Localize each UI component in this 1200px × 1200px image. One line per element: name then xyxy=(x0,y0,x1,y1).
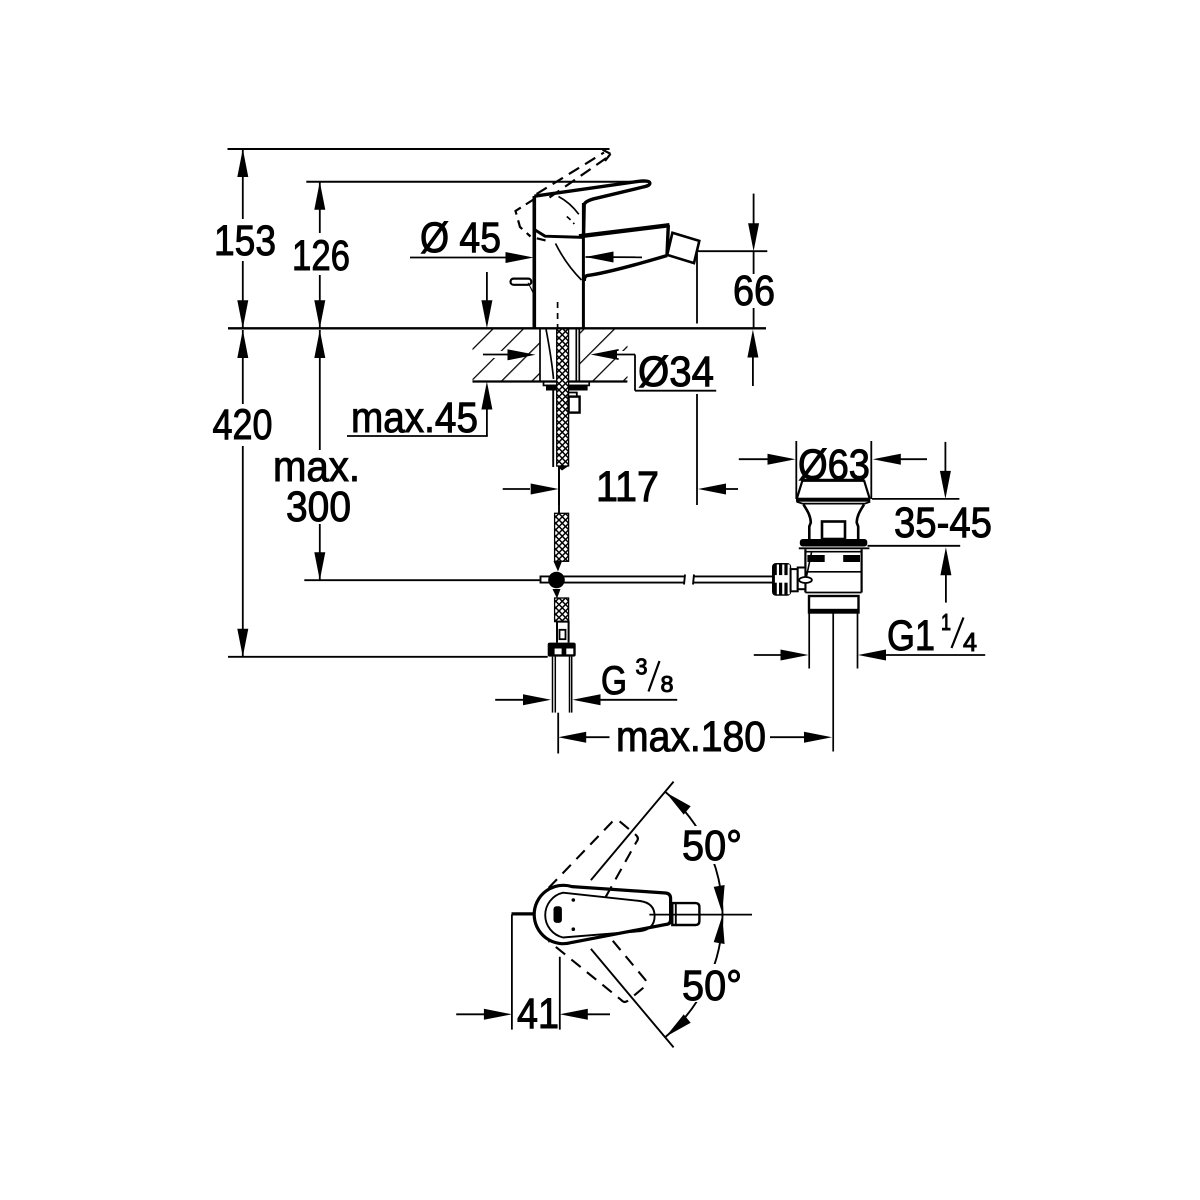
flexible hose middle segment xyxy=(555,513,569,561)
threaded stud line xyxy=(552,390,554,467)
counter slab hatched left xyxy=(473,330,541,381)
dimension label max.300 xyxy=(273,443,360,531)
svg-text:max.180: max.180 xyxy=(616,713,766,761)
swivel arc upper 50 degrees xyxy=(665,792,724,915)
top view centerline xyxy=(649,914,752,916)
extension line spout tip vertical xyxy=(696,253,698,460)
swivel arc lower 50 degrees xyxy=(665,915,724,1038)
dimension label 420 xyxy=(213,401,273,449)
svg-text:300: 300 xyxy=(286,483,351,531)
pivot taper top xyxy=(554,561,563,571)
counter slab hatched right xyxy=(580,330,628,381)
flexible hose lower segment xyxy=(555,598,569,622)
pivot taper bottom xyxy=(553,589,561,599)
svg-text:Ø 45: Ø 45 xyxy=(420,214,501,262)
svg-text:4: 4 xyxy=(963,627,977,657)
svg-text:G1: G1 xyxy=(887,612,935,660)
faucet body outline xyxy=(534,196,583,328)
top view faucet inner outline xyxy=(545,893,654,938)
dimension Ø63 xyxy=(739,441,927,489)
dimension max.180 xyxy=(558,713,832,761)
svg-text:420: 420 xyxy=(213,401,273,449)
dimension Ø34 arrows and label xyxy=(483,348,716,396)
drain cup top xyxy=(797,480,870,498)
svg-text:66: 66 xyxy=(733,267,775,315)
hose clip xyxy=(569,393,580,413)
svg-text:8: 8 xyxy=(661,671,674,697)
svg-text:117: 117 xyxy=(596,463,659,511)
label G 3/8 xyxy=(601,654,674,704)
dimension max.300 vertical line xyxy=(314,330,325,580)
svg-text:50°: 50° xyxy=(682,822,742,870)
label 50 degrees upper xyxy=(678,822,746,870)
dimension max.45 (deck thickness) xyxy=(347,272,492,436)
dimension label 126 xyxy=(292,232,350,280)
dimension 41 xyxy=(456,915,610,1039)
faucet cartridge inner curves xyxy=(556,197,582,281)
svg-text:41: 41 xyxy=(517,990,559,1038)
extension line rod level (max.300 bottom) xyxy=(304,579,539,581)
top view faucet outer outline xyxy=(534,885,670,943)
svg-text:G: G xyxy=(601,659,627,703)
pop-up rod vertical xyxy=(558,467,560,513)
label 50 degrees lower xyxy=(678,962,746,1010)
drain rod clamp screw xyxy=(799,553,812,584)
dimension label 153 xyxy=(214,217,276,265)
dimension label max.45 xyxy=(351,394,478,442)
drain flange xyxy=(796,498,870,504)
swivel ray lower xyxy=(591,949,674,1048)
svg-text:max.45: max.45 xyxy=(351,394,478,442)
drain seal collar xyxy=(799,539,870,548)
faucet hidden hose centerline above deck xyxy=(557,302,559,328)
dimension 66 xyxy=(698,194,781,386)
svg-text:3: 3 xyxy=(636,654,648,680)
counter slab bottom line xyxy=(473,380,628,382)
swivel ray upper xyxy=(591,782,674,881)
faucet handle dashed raised position xyxy=(516,153,609,241)
mounting surface line xyxy=(228,327,766,329)
drain body xyxy=(805,549,861,592)
dimension G3/8 leader xyxy=(495,694,677,705)
svg-text:35-45: 35-45 xyxy=(894,499,992,547)
faucet spout nozzle xyxy=(667,233,699,263)
dimension 420 vertical line xyxy=(237,330,248,657)
svg-text:Ø34: Ø34 xyxy=(638,348,714,396)
drain adjusting knurled nut xyxy=(772,563,805,596)
dimension 153 vertical line xyxy=(237,149,248,328)
dimension label Ø 45 with leader xyxy=(410,214,642,263)
top view handle button xyxy=(554,898,576,931)
dimension 35-45 xyxy=(868,442,993,603)
label G1 1/4 xyxy=(887,609,977,660)
extension line hose-end level (420 bottom) xyxy=(228,656,548,658)
faucet shank nut xyxy=(547,385,587,390)
faucet spout xyxy=(579,225,670,281)
flexible hose upper segment xyxy=(557,329,569,471)
hose end fitting xyxy=(557,622,569,643)
svg-text:126: 126 xyxy=(292,232,350,280)
extension line second (126 reference, handle level) xyxy=(306,181,648,183)
drain neck xyxy=(804,505,865,540)
pop-up pivot ball xyxy=(548,572,565,589)
dimension 126 vertical line xyxy=(314,182,325,329)
svg-text:153: 153 xyxy=(214,217,276,265)
drain body slots xyxy=(807,555,860,562)
drain assembly Ø63 extension lines xyxy=(796,441,871,499)
connection tube below nut xyxy=(553,657,572,713)
pop-up rod horizontal xyxy=(541,575,774,585)
drain tailpipe G1 1/4 xyxy=(809,613,857,752)
hose end nut G3/8 xyxy=(548,643,576,657)
dimension G1 1/4 leader xyxy=(754,650,985,661)
faucet shank washer xyxy=(544,382,590,386)
dimension 117 xyxy=(503,460,738,511)
top view dashed handle rotated down 50 xyxy=(549,909,649,1015)
drain outlet flare xyxy=(809,596,859,613)
top view nozzle xyxy=(672,903,699,925)
faucet handle dashed tip chevron xyxy=(603,150,611,161)
top view pull rod stub xyxy=(512,912,535,915)
faucet handle lever xyxy=(534,181,650,234)
svg-text:1: 1 xyxy=(941,609,951,635)
top view dashed handle rotated up 50 xyxy=(549,814,650,920)
drain pop-up pin tab xyxy=(822,522,845,540)
faucet drain pull knob xyxy=(511,279,535,296)
svg-text:50°: 50° xyxy=(682,962,742,1010)
deck hole walls xyxy=(540,328,579,380)
extension line top (153 reference, faucet top level) xyxy=(228,148,610,150)
